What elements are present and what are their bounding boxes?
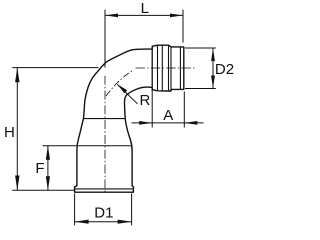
dimension D1 right arrow bbox=[118, 220, 132, 224]
dimension F down arrow bbox=[46, 176, 50, 190]
dimension D2 down arrow bbox=[211, 76, 215, 89]
dimension A left arrow bbox=[139, 121, 152, 125]
dimension L right arrow bbox=[170, 14, 183, 18]
svg-text:R: R bbox=[140, 92, 151, 109]
svg-text:A: A bbox=[163, 107, 173, 124]
socket rib line 1b bbox=[161, 45, 163, 91]
socket rib line 2 bbox=[168, 45, 170, 91]
dimension L line bbox=[105, 14, 183, 16]
dimension D1 right extension line bbox=[131, 193, 133, 225]
bell socket-depth chord line bbox=[43, 145, 132, 147]
dimension A line bbox=[132, 122, 204, 124]
elbow body outline bbox=[75, 45, 184, 192]
dimension D1 left arrow bbox=[75, 220, 89, 224]
dimension D2 up arrow bbox=[211, 48, 215, 61]
dimension H up arrow bbox=[15, 68, 19, 83]
centerline bend arc bbox=[106, 70, 134, 96]
bottom extension line shared H F bbox=[12, 189, 74, 191]
socket rib line 1 bbox=[157, 45, 159, 91]
dimension D1 left extension line bbox=[74, 193, 76, 225]
dimension F up arrow bbox=[46, 146, 50, 160]
dimension D1 line bbox=[75, 221, 132, 223]
svg-text:D1: D1 bbox=[94, 204, 113, 221]
radius R leader arrowhead bbox=[117, 84, 127, 93]
dimension A right arrow bbox=[184, 121, 197, 125]
socket face ring line bbox=[179, 47, 181, 90]
dimension L right extension line bbox=[182, 10, 184, 43]
svg-text:L: L bbox=[141, 0, 149, 17]
dimension L left arrow bbox=[105, 14, 118, 18]
dimension H down arrow bbox=[15, 176, 19, 191]
dimension H top extension line bbox=[12, 67, 98, 69]
socket rib line 3 bbox=[170, 47, 172, 91]
svg-text:H: H bbox=[4, 124, 15, 141]
vertical centerline bbox=[104, 76, 106, 194]
bell bottom rim line bbox=[75, 188, 134, 190]
dimension A right extension line bbox=[183, 92, 185, 128]
dimension D2 top extension line bbox=[185, 47, 216, 49]
svg-text:D2: D2 bbox=[215, 61, 234, 78]
dimension D2 line bbox=[212, 48, 214, 89]
dimension D2 bottom extension line bbox=[185, 88, 216, 90]
radius R leader line bbox=[117, 84, 137, 104]
socket step edge bbox=[151, 46, 153, 89]
dimension F line bbox=[47, 146, 49, 191]
dimension L left extension line bbox=[104, 10, 106, 68]
body seam line bbox=[83, 118, 125, 120]
horizontal centerline bbox=[136, 67, 195, 69]
dimension H line bbox=[16, 68, 18, 191]
dimension A left extension line bbox=[151, 90, 153, 128]
svg-text:F: F bbox=[35, 160, 44, 177]
